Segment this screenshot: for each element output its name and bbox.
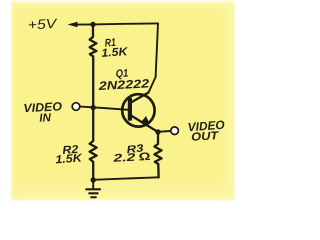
transistor Q1 circle [122, 94, 154, 126]
resistor R1 [90, 24, 97, 107]
resistor R3 [154, 132, 161, 177]
ground [92, 180, 94, 188]
wire: bottom rail [93, 177, 158, 180]
transistor Q1 emitter lead [132, 116, 158, 132]
svg-text:IN: IN [39, 112, 52, 125]
wire: right vertical drop to collector [149, 23, 159, 92]
transistor Q1 emitter arrowhead [141, 116, 150, 124]
node: emitter junction [155, 129, 160, 134]
terminal: VIDEO OUT [171, 127, 179, 135]
svg-text:OUT: OUT [191, 130, 220, 143]
svg-text:2.2 Ω: 2.2 Ω [112, 151, 152, 165]
transistor Q1 collector lead [132, 93, 149, 103]
wire: base node to transistor base [93, 107, 128, 110]
node: base junction [91, 105, 96, 110]
wire: emitter node to VIDEO OUT terminal [158, 130, 171, 133]
wire: top rail from node to right corner [93, 23, 158, 24]
yellow page background [12, 2, 234, 201]
node: ground junction [91, 177, 96, 182]
svg-text:2N2222: 2N2222 [97, 76, 150, 93]
svg-text:1.5K: 1.5K [55, 153, 83, 167]
wire: +5V arrow lead to top node [76, 23, 93, 25]
node: top junction [90, 22, 95, 27]
transistor Q1 base bar [128, 98, 132, 121]
svg-text:1.5K: 1.5K [101, 46, 129, 60]
arrowhead to +5V [68, 22, 78, 28]
terminal: VIDEO IN [72, 103, 80, 111]
wire: VIDEO IN to base node [80, 106, 93, 109]
svg-text:+5V: +5V [27, 16, 59, 33]
resistor R2 [90, 108, 97, 180]
